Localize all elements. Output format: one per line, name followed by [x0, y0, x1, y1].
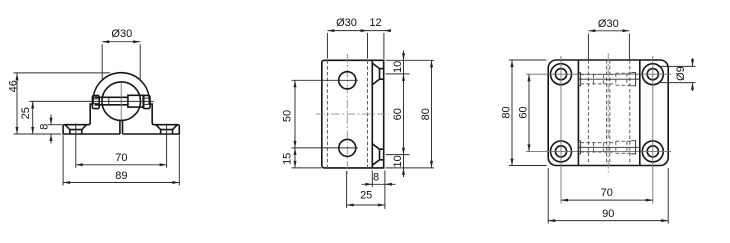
dimension 80 (side view height) — [420, 60, 433, 168]
dimension 80 (plan height) — [500, 60, 546, 166]
vertical centerline — [346, 54, 348, 174]
counterbore exit upper — [144, 97, 150, 99]
dimension 89 (base width) — [63, 135, 179, 185]
svg-text:70: 70 — [601, 187, 613, 199]
dimension 46 — [7, 73, 110, 134]
dimension 15 — [281, 148, 321, 168]
plate outline — [548, 60, 668, 166]
svg-text:46: 46 — [7, 80, 19, 92]
svg-text:25: 25 — [20, 107, 32, 119]
middle view: side elevation — [281, 17, 434, 209]
cross-hole hidden detail at y=147.3 — [578, 141, 639, 154]
dimension Ø30 (left view) — [102, 28, 140, 80]
base left outline — [63, 104, 120, 134]
hole row centerline bottom — [526, 150, 671, 152]
dimension 60 (hole row spacing) — [517, 74, 530, 151]
boss outer arc — [93, 73, 149, 104]
horizontal axis / 25-extension line — [30, 100, 154, 102]
vertical centerline — [607, 53, 609, 173]
counterbore at (652.8,74.2) — [642, 64, 663, 85]
slot left edge — [119, 119, 121, 134]
right ear boss — [143, 95, 150, 108]
svg-text:15: 15 — [281, 153, 293, 165]
horizontal centerline — [316, 113, 389, 115]
bottom countersunk foot hole (side) — [372, 144, 383, 165]
dimension 70 (foot hole spacing) — [76, 152, 167, 166]
right view: plan view — [500, 18, 695, 224]
left foot countersunk hole — [65, 125, 86, 134]
side view body outline — [322, 60, 384, 168]
cross-hole upper line — [95, 96, 128, 98]
dimension 90 (plate width) — [548, 168, 668, 224]
cross-hole counterbore — [128, 95, 144, 107]
svg-text:Ø30: Ø30 — [111, 28, 132, 40]
svg-text:50: 50 — [281, 110, 293, 122]
counterbore at (561.0,74.2) — [551, 64, 572, 85]
svg-text:60: 60 — [517, 106, 529, 118]
right foot hole centerline / 70-extension — [166, 124, 168, 168]
svg-text:12: 12 — [369, 17, 381, 29]
dimension Ø9 (counterbore holes) — [658, 58, 696, 91]
dimension 12 (flange) — [368, 17, 391, 32]
dimension Ø30 (side view) — [327, 17, 384, 59]
svg-text:70: 70 — [115, 152, 127, 164]
svg-text:Ø30: Ø30 — [336, 17, 357, 29]
dimension 70 (hole column spacing) — [561, 187, 653, 202]
bore circle (Ø30) — [102, 82, 141, 121]
hole column centerline left — [560, 56, 562, 204]
slot hidden left — [606, 60, 608, 166]
cross-hole hidden detail at y=79.2 — [578, 73, 639, 86]
dimension 8 (plate thickness) — [362, 171, 396, 210]
dimension 8 (foot thickness) — [39, 115, 63, 144]
svg-text:Ø30: Ø30 — [598, 18, 619, 30]
bore hidden right — [629, 60, 631, 166]
thread line lower (ear) — [93, 103, 99, 105]
cross-hole lower line — [95, 104, 128, 106]
hole row centerline top — [526, 73, 671, 75]
top countersunk foot hole (side) — [372, 63, 383, 84]
hole column centerline right — [652, 56, 654, 204]
counterbore at (561.0,151.4) — [551, 141, 572, 162]
flange front face — [371, 60, 373, 168]
slot right edge — [122, 119, 124, 134]
svg-text:8: 8 — [373, 171, 379, 183]
svg-text:10: 10 — [392, 155, 404, 167]
dimension 25 (axis to mounting face) — [347, 171, 385, 208]
thread line upper (ear) — [93, 98, 99, 100]
left foot hole centerline / 70-extension — [75, 124, 77, 168]
bore hidden edge left — [326, 60, 328, 168]
counterbore exit lower — [144, 103, 150, 105]
svg-text:80: 80 — [420, 108, 432, 120]
svg-text:10: 10 — [392, 61, 404, 73]
base right outline — [123, 104, 180, 134]
right side chained dims 10/60/10 — [386, 51, 435, 178]
upper web hole — [339, 72, 356, 89]
vertical centerline — [120, 83, 122, 119]
svg-text:Ø9: Ø9 — [675, 66, 687, 81]
dimension Ø30 (plan view) — [588, 18, 629, 60]
svg-text:8: 8 — [39, 124, 51, 130]
bore hidden edge right — [367, 60, 369, 168]
lower web hole — [339, 139, 356, 156]
svg-text:90: 90 — [602, 208, 614, 220]
boss edge left — [577, 60, 579, 166]
dimension 50 (web hole spacing) — [281, 80, 358, 148]
svg-text:25: 25 — [360, 190, 372, 202]
svg-text:89: 89 — [115, 170, 127, 182]
svg-text:80: 80 — [500, 106, 512, 118]
slot hidden right — [609, 60, 611, 166]
dimension 25 — [20, 101, 34, 134]
right foot countersunk hole — [156, 125, 177, 134]
cross-hole intersection tick — [108, 97, 110, 105]
boss edge right — [639, 60, 641, 166]
counterbore at (652.8,151.4) — [642, 141, 663, 162]
bore hidden left — [587, 60, 589, 166]
left view: front elevation — [7, 28, 179, 186]
svg-text:60: 60 — [392, 108, 404, 120]
left ear boss — [92, 95, 99, 108]
